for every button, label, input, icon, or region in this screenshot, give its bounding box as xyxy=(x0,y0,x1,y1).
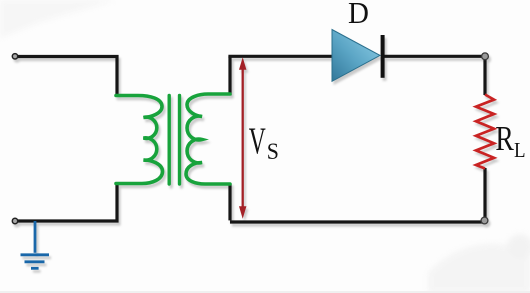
svg-text:D: D xyxy=(348,0,369,30)
wire right rail bottom lead xyxy=(483,168,486,222)
svg-text:R: R xyxy=(495,119,513,158)
diode D triangle xyxy=(332,30,380,82)
transformer primary winding xyxy=(116,96,163,184)
resistor RL zigzag xyxy=(476,95,494,169)
wire right rail top lead xyxy=(483,56,486,95)
transformer core line left xyxy=(167,96,170,185)
node bottom right xyxy=(481,217,488,224)
label RL xyxy=(495,119,525,162)
wire top-left from input terminal to transformer primary top xyxy=(15,57,117,97)
wire bottom-left from transformer primary bottom to input terminal xyxy=(15,184,117,222)
label VS xyxy=(249,120,279,164)
wire diode to node xyxy=(384,55,485,58)
input terminal top xyxy=(12,54,17,59)
wire secondary top vertical xyxy=(228,56,231,95)
wire secondary bottom vertical xyxy=(228,184,231,220)
ground xyxy=(21,221,50,268)
svg-text:S: S xyxy=(267,138,279,164)
node top right xyxy=(482,53,489,60)
transformer secondary winding xyxy=(186,94,230,184)
svg-text:L: L xyxy=(514,139,526,162)
wire top rail to diode xyxy=(228,55,333,58)
transformer core line right xyxy=(178,96,181,185)
input terminal bottom xyxy=(12,218,17,223)
arrow VS double-headed xyxy=(239,57,246,219)
wire bottom rail xyxy=(230,220,487,223)
svg-text:V: V xyxy=(249,120,266,162)
diode D cathode bar xyxy=(381,35,385,78)
